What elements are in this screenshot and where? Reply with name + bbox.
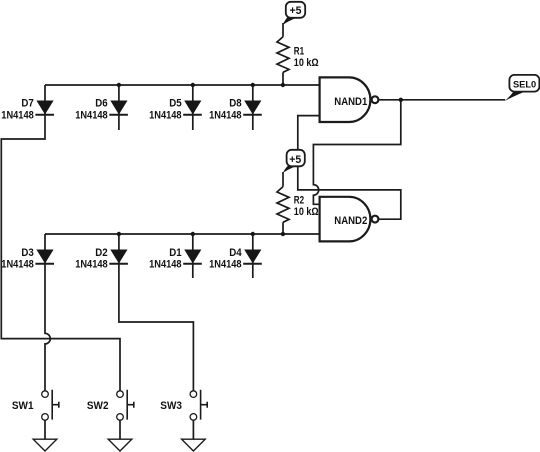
wire SW3 to ground [192, 420, 194, 439]
wire bottom bus [45, 233, 320, 235]
switch SW3 actuator [201, 390, 208, 420]
svg-text:SW1: SW1 [12, 400, 34, 412]
switch SW3 contacts [190, 391, 197, 398]
resistor R1 [277, 37, 289, 73]
svg-text:D2: D2 [95, 247, 107, 259]
wire R1 bottom [282, 72, 284, 85]
diode D5 [184, 101, 201, 115]
svg-text:SEL0: SEL0 [513, 80, 536, 91]
ground (SW3) [182, 439, 206, 451]
wire D1 stub [192, 234, 194, 278]
svg-text:1N4148: 1N4148 [209, 259, 242, 271]
svg-text:D3: D3 [21, 247, 33, 259]
wire R2 bottom [282, 222, 284, 234]
resistor R2 [277, 187, 289, 223]
switch SW1 actuator [52, 390, 59, 420]
diode D4 [244, 250, 261, 264]
wire D4 stub [252, 234, 254, 278]
NAND gate U2 body [320, 197, 371, 242]
wire D2 to SW3 [119, 234, 193, 391]
wire D6 stub [118, 85, 120, 130]
ground (SW1) [33, 439, 57, 451]
op-amp substitute: NAND gate U1 body [320, 77, 371, 122]
svg-text:1N4148: 1N4148 [75, 109, 108, 121]
diode D7 [36, 101, 53, 115]
wire SW1 to ground [44, 420, 46, 439]
svg-text:SW2: SW2 [87, 400, 109, 412]
diode D8 [244, 101, 261, 115]
svg-text:D7: D7 [21, 98, 33, 110]
svg-text:D4: D4 [229, 247, 242, 259]
switch SW1 contacts [42, 391, 49, 398]
net flag SEL0 [505, 91, 526, 101]
svg-text:1N4148: 1N4148 [149, 259, 182, 271]
wire D5 stub [192, 85, 194, 130]
wire D7 cathode to left edge down to SW2 [1, 85, 120, 391]
svg-text:1N4148: 1N4148 [75, 259, 108, 271]
svg-text:1N4148: 1N4148 [149, 109, 182, 121]
svg-text:D6: D6 [95, 98, 107, 110]
diode D6 [110, 101, 127, 115]
node junction dots bottom bus [117, 232, 121, 236]
switch SW2 actuator [127, 390, 134, 420]
svg-text:SW3: SW3 [160, 400, 182, 412]
svg-text:1N4148: 1N4148 [1, 259, 34, 271]
wire R2 top [282, 172, 284, 187]
ground (SW2) [108, 439, 132, 451]
svg-text:R1: R1 [294, 46, 304, 58]
NAND2 output bubble [372, 216, 379, 223]
svg-text:D1: D1 [169, 247, 181, 259]
power flag +5 (R1) [282, 18, 297, 26]
wire NAND2 out feedback to NAND1 input B [298, 116, 401, 220]
svg-text:+5: +5 [290, 5, 302, 17]
wire NAND1 output to SEL0 [379, 99, 506, 101]
svg-text:NAND2: NAND2 [334, 215, 367, 227]
diode D1 [184, 250, 201, 264]
svg-text:10 kΩ: 10 kΩ [294, 57, 319, 69]
wire feedback NAND1 out to NAND2 input A with hop [313, 100, 400, 205]
wire R1 top [282, 23, 284, 37]
switch SW2 contacts [117, 391, 124, 398]
wire D3/SW1 column with hop [45, 234, 50, 391]
wire D8 stub [252, 85, 254, 130]
svg-text:1N4148: 1N4148 [209, 109, 242, 121]
svg-text:R2: R2 [294, 194, 304, 206]
svg-text:D8: D8 [229, 98, 241, 110]
svg-text:D5: D5 [169, 98, 181, 110]
wire SW2 to ground [119, 420, 121, 439]
diode D3 [36, 250, 53, 264]
power flag +5 (R2) [283, 166, 297, 173]
node junction dots top bus [117, 83, 121, 87]
svg-text:1N4148: 1N4148 [1, 109, 34, 121]
node junction NAND1 output [399, 98, 403, 102]
svg-text:+5: +5 [289, 154, 301, 166]
wire top bus [45, 84, 320, 86]
NAND1 output bubble [372, 96, 379, 103]
svg-text:10 kΩ: 10 kΩ [294, 206, 319, 218]
diode D2 [110, 250, 127, 264]
svg-text:NAND1: NAND1 [334, 96, 367, 108]
